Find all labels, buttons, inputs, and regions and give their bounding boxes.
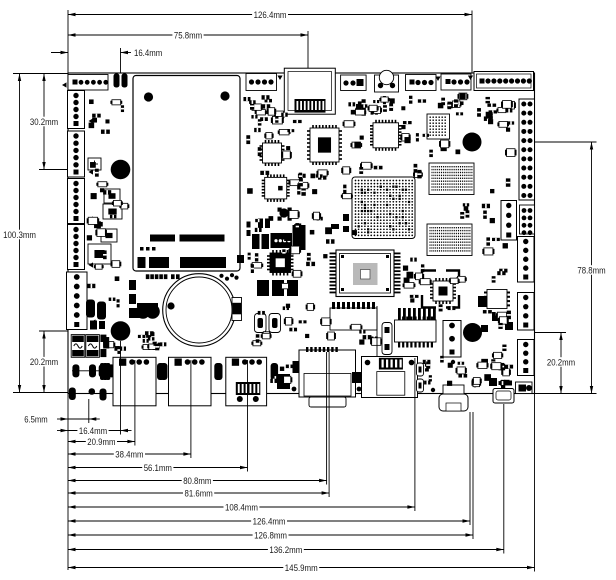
svg-text:16.4mm: 16.4mm xyxy=(79,426,107,436)
svg-text:145.9mm: 145.9mm xyxy=(285,563,318,573)
svg-text:100.3mm: 100.3mm xyxy=(3,230,36,240)
svg-text:20.2mm: 20.2mm xyxy=(30,357,58,367)
svg-text:16.4mm: 16.4mm xyxy=(134,48,162,58)
svg-text:81.6mm: 81.6mm xyxy=(185,488,213,498)
svg-text:126.8mm: 126.8mm xyxy=(254,530,287,540)
svg-text:80.8mm: 80.8mm xyxy=(183,476,211,486)
svg-text:78.8mm: 78.8mm xyxy=(577,265,605,275)
svg-text:56.1mm: 56.1mm xyxy=(144,463,172,473)
svg-text:20.2mm: 20.2mm xyxy=(547,357,575,367)
svg-text:30.2mm: 30.2mm xyxy=(30,117,58,127)
svg-text:126.4mm: 126.4mm xyxy=(253,516,286,526)
svg-text:6.5mm: 6.5mm xyxy=(24,414,48,424)
svg-text:38.4mm: 38.4mm xyxy=(115,449,143,459)
svg-text:20.9mm: 20.9mm xyxy=(87,437,115,447)
svg-text:126.4mm: 126.4mm xyxy=(254,10,287,20)
svg-text:108.4mm: 108.4mm xyxy=(225,502,258,512)
svg-text:136.2mm: 136.2mm xyxy=(269,545,302,555)
svg-text:75.8mm: 75.8mm xyxy=(174,30,202,40)
